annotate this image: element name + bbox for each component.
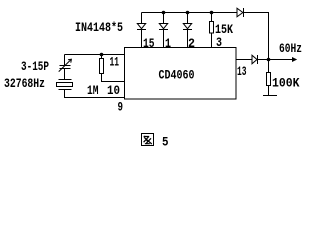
node dot: output junction bbox=[267, 58, 271, 62]
wire: R1 top lead bbox=[101, 55, 103, 59]
diode D3 bar bbox=[183, 29, 192, 31]
output arrowhead bbox=[292, 57, 297, 62]
ground bar bbox=[263, 95, 277, 97]
svg-text:2: 2 bbox=[188, 36, 195, 51]
wire: diode D2 leads pin 1 bbox=[163, 13, 165, 48]
diode D5 triangle bbox=[252, 55, 257, 64]
svg-text:1: 1 bbox=[165, 36, 171, 51]
svg-text:5: 5 bbox=[162, 135, 169, 150]
svg-text:IN4148*5: IN4148*5 bbox=[75, 20, 123, 35]
wire: bus after diode D4 to right corner and down bbox=[244, 13, 269, 60]
diode D4 triangle bbox=[237, 8, 243, 17]
svg-text:9: 9 bbox=[118, 100, 124, 115]
wire: diode D5 to output arrow bbox=[258, 59, 293, 61]
capacitor C1 trimmer plates bbox=[60, 66, 71, 69]
diode D1 triangle bbox=[137, 24, 145, 29]
svg-text:10: 10 bbox=[107, 83, 120, 98]
resistor R2 15K body bbox=[210, 22, 214, 34]
resistor R3 100K body bbox=[267, 73, 271, 86]
node dot: R1 top junction bbox=[100, 53, 104, 57]
svg-text:15: 15 bbox=[143, 36, 155, 51]
wire: R3 100K top lead bbox=[268, 60, 270, 73]
wire: oscillator top rail to pin 11 bbox=[65, 54, 125, 56]
wire: pin 10 to R1 bottom bbox=[102, 74, 125, 82]
wire: trimmer top lead bbox=[64, 55, 66, 66]
IC U1 CD4060 body bbox=[125, 48, 237, 100]
wire: top bus bbox=[142, 12, 238, 14]
diode D1 bar bbox=[137, 29, 146, 31]
svg-text:13: 13 bbox=[237, 64, 247, 79]
svg-text:11: 11 bbox=[110, 55, 120, 70]
crystal Y1 body bbox=[57, 83, 73, 87]
diode D5 bar bbox=[257, 55, 259, 64]
wire: R3 bottom lead bbox=[268, 86, 270, 96]
caption glyph tu strokes bbox=[144, 137, 152, 145]
wire: pin 13 to diode D5 bbox=[236, 59, 252, 61]
svg-text:15K: 15K bbox=[215, 22, 233, 37]
caption glyph tu (figure) box bbox=[142, 134, 154, 146]
caption glyph tu inner dot bbox=[144, 136, 146, 138]
diode D2 bar bbox=[159, 29, 168, 31]
diode D2 triangle bbox=[159, 24, 167, 29]
trimmer arrow diagonal bbox=[59, 59, 71, 71]
wire: crystal bottom to pin 9 bbox=[65, 90, 125, 98]
svg-text:CD4060: CD4060 bbox=[159, 68, 195, 83]
trimmer arrowhead bbox=[68, 59, 71, 63]
node dot: bus at D2 bbox=[162, 11, 166, 15]
diode D3 triangle bbox=[183, 24, 191, 29]
svg-text:3: 3 bbox=[216, 35, 222, 50]
wire: trimmer to crystal bbox=[64, 69, 66, 80]
svg-text:100K: 100K bbox=[272, 76, 300, 91]
wire: diode D1 leads pin 15 bbox=[141, 13, 143, 48]
svg-text:60Hz: 60Hz bbox=[279, 41, 302, 56]
diode D4 bar bbox=[243, 8, 245, 17]
svg-text:32768Hz: 32768Hz bbox=[4, 76, 45, 91]
svg-text:1M: 1M bbox=[87, 83, 99, 98]
wire: resistor R2 15K leads pin 3 bbox=[211, 13, 213, 48]
svg-text:3-15P: 3-15P bbox=[21, 59, 49, 74]
crystal Y1 plates bbox=[59, 80, 72, 90]
resistor R1 1M body bbox=[100, 59, 104, 74]
node dot: bus at R2 bbox=[210, 11, 214, 15]
node dot: bus at D3 bbox=[186, 11, 190, 15]
wire: diode D3 leads pin 2 bbox=[187, 13, 189, 48]
